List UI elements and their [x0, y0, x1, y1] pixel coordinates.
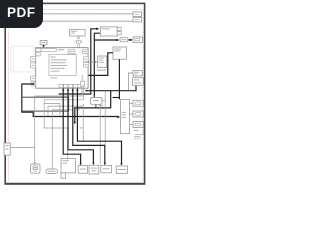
thick wire L1 to U2	[86, 86, 136, 91]
RB right link	[102, 100, 105, 102]
option text lines	[51, 57, 68, 72]
bracket under R3	[134, 129, 144, 135]
caption under B5	[97, 70, 107, 71]
tiny label	[80, 126, 83, 129]
pin box top mid	[68, 50, 75, 54]
gray elbow 3	[48, 106, 83, 116]
pin box top right	[83, 50, 89, 54]
strip to R2 wire	[130, 113, 134, 115]
connector TR2	[133, 17, 142, 22]
label box C2	[61, 159, 75, 179]
pin box left inner 2	[36, 53, 40, 56]
ground box C1	[31, 164, 40, 173]
figure icon under B2	[75, 37, 83, 48]
thick wire W1 horizontal run	[59, 93, 92, 95]
module U1	[133, 71, 142, 77]
bottom box b2	[89, 165, 99, 174]
connector TR1	[133, 12, 142, 17]
left edge pin boxes	[31, 57, 36, 87]
bundle wire 1	[63, 89, 80, 164]
thin elbow U1 left	[128, 73, 133, 90]
relay R3	[133, 121, 143, 127]
label under strip	[134, 136, 140, 137]
caption under inner box	[50, 77, 57, 78]
bottom box b4	[116, 166, 127, 173]
thick wire W1 into B1	[91, 29, 97, 94]
strip to R1 wire	[130, 102, 134, 104]
gray wires inside/below DB	[10, 86, 100, 169]
bundle wire 4	[77, 89, 121, 164]
thick wire W2	[94, 33, 130, 97]
small box S1 above block	[40, 40, 47, 45]
bundle wire 3	[73, 89, 105, 164]
gray wire mid drop	[82, 104, 84, 141]
bottom edge pin boxes	[59, 84, 81, 87]
pill box P1	[46, 169, 58, 174]
left border box LB	[4, 143, 10, 155]
red margin line right	[142, 10, 144, 182]
wire: top bus line 1	[9, 13, 133, 15]
thick notch strip top	[113, 97, 120, 99]
module B4	[113, 47, 126, 59]
thick wire B4 to block (P1)	[89, 53, 113, 76]
inner option text box	[49, 55, 76, 76]
wire: top bus line 2	[9, 20, 133, 22]
gray elbow 1	[35, 86, 82, 163]
faint rect left of block	[11, 46, 34, 72]
bottom box b3	[101, 165, 112, 172]
LB feed wire	[10, 147, 35, 149]
right edge pin boxes	[84, 57, 89, 67]
connector tab right of B1	[117, 28, 121, 35]
connector strip	[121, 100, 130, 134]
RB label	[99, 105, 103, 106]
thin wire block to B5	[88, 61, 97, 63]
PDF badge	[0, 0, 43, 28]
strip to R3 wire	[130, 124, 134, 126]
pin box top 2 (long)	[41, 49, 56, 52]
bottom border emphasis	[5, 182, 145, 184]
main ECU block	[36, 48, 88, 88]
dark annotation box DB	[22, 97, 69, 111]
bundle wire 2	[68, 89, 93, 164]
gray elbow 2	[44, 86, 83, 100]
top label text	[58, 49, 65, 50]
rounded box RB	[90, 97, 102, 104]
module B2	[70, 30, 86, 36]
relay R2	[133, 111, 143, 117]
module B3	[133, 37, 143, 43]
gray drop to b3	[99, 105, 101, 165]
bottom box b1	[78, 166, 87, 174]
relay box K1	[120, 38, 128, 42]
relay R1	[133, 100, 143, 106]
thick wire W3	[22, 84, 119, 117]
gray elbow 4	[52, 110, 80, 169]
page border	[5, 3, 144, 184]
RB bottom stub arrow	[95, 104, 97, 106]
thick wire lattice (P2)	[75, 91, 111, 123]
gray wire drop right	[104, 91, 106, 145]
page background	[0, 0, 149, 198]
thick wire B4 bottom drop	[118, 59, 120, 99]
red margin line left	[7, 10, 9, 182]
arrow from S1 into block	[43, 45, 45, 47]
module B5	[98, 56, 107, 68]
module B1	[100, 27, 117, 36]
wire inside block to pin	[81, 75, 83, 81]
module U2	[133, 78, 144, 86]
pin box bottom right inner	[81, 81, 85, 86]
red margin line top	[8, 9, 143, 11]
pin box top-left 1	[36, 49, 41, 52]
